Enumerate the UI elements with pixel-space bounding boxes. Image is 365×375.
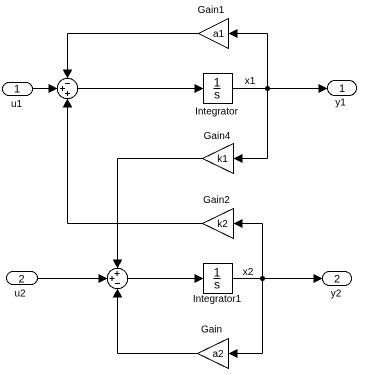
svg-text:2: 2: [18, 274, 24, 286]
node x1 label: [245, 76, 256, 87]
integrator U Integrator: [204, 74, 233, 104]
wire x1 junction up to Gain1 input: [229, 29, 268, 89]
svg-text:y2: y2: [331, 289, 342, 300]
sum block Sum1: [57, 78, 77, 98]
label u1: [11, 99, 23, 110]
label Gain2: [203, 195, 230, 206]
label y1: [335, 98, 346, 109]
input port u2: [7, 272, 38, 286]
svg-text:1: 1: [339, 83, 345, 95]
svg-text:2: 2: [334, 274, 340, 286]
gain Gain: [198, 339, 229, 369]
gain Gain4: [203, 144, 234, 174]
integrator U Integrator1: [204, 264, 233, 294]
svg-text:Integrator1: Integrator1: [193, 294, 242, 305]
svg-text:u2: u2: [14, 289, 26, 300]
sum block Sum2: [107, 268, 127, 288]
wire Integrator1 to Out2: [233, 274, 323, 283]
wire x2 junction up to Gain2 input: [234, 219, 263, 279]
label Integrator1: [193, 294, 242, 305]
svg-text:k1: k1: [217, 154, 228, 165]
output port y1: [328, 81, 357, 96]
wire Integrator to Out1: [233, 84, 328, 93]
wire Gain2 output to Sum1 bottom: [63, 99, 203, 224]
gain Gain1: [199, 19, 229, 49]
svg-text:x1: x1: [245, 76, 256, 87]
svg-text:Gain2: Gain2: [203, 195, 230, 206]
svg-text:u1: u1: [11, 99, 23, 110]
input port u1: [3, 83, 33, 96]
svg-text:a2: a2: [212, 349, 224, 360]
svg-text:Gain4: Gain4: [204, 131, 231, 142]
label y2: [331, 289, 342, 300]
svg-text:s: s: [214, 278, 220, 292]
svg-text:Gain1: Gain1: [198, 5, 225, 16]
label Gain4: [204, 131, 231, 142]
wire Gain output to Sum2 bottom: [113, 289, 198, 354]
svg-text:x2: x2: [243, 267, 254, 278]
gain Gain2: [203, 209, 234, 239]
svg-text:Integrator: Integrator: [195, 107, 238, 118]
wire Gain4 output to Sum2 top: [113, 159, 203, 269]
wire Gain1 output to Sum1 top: [63, 34, 199, 79]
output port y2: [323, 272, 352, 286]
svg-text:Gain: Gain: [201, 325, 222, 336]
junction x2: [260, 276, 265, 281]
junction x1: [265, 86, 270, 91]
svg-text:1: 1: [14, 84, 20, 96]
wire x2 junction down to Gain input: [229, 279, 263, 359]
svg-text:y1: y1: [335, 98, 346, 109]
svg-text:s: s: [214, 88, 220, 102]
label u2: [14, 289, 26, 300]
label Integrator: [195, 107, 238, 118]
wire u1 to Sum1: [33, 84, 58, 93]
node x2 label: [243, 267, 254, 278]
wire Sum2 to Integrator1: [128, 274, 204, 283]
wire Sum1 to Integrator: [78, 84, 204, 93]
svg-text:a1: a1: [213, 29, 225, 40]
label Gain: [201, 325, 222, 336]
wire x1 junction down to Gain4 input: [234, 89, 268, 164]
svg-text:k2: k2: [217, 219, 228, 230]
label Gain1: [198, 5, 225, 16]
wire u2 to Sum2: [38, 274, 108, 283]
